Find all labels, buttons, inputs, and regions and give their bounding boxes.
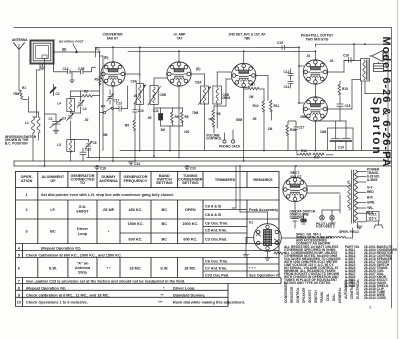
capacitor C11: [153, 108, 163, 126]
svg-text:18 MC.: 18 MC.: [184, 267, 196, 271]
svg-text:7B6: 7B6: [244, 36, 250, 40]
svg-text:(B): (B): [62, 48, 66, 52]
svg-text:C9B: C9B: [160, 93, 167, 97]
svg-text:G-Y: G-Y: [367, 185, 374, 189]
svg-text:SOCKET: SOCKET: [308, 290, 312, 303]
svg-text:50M: 50M: [236, 118, 243, 122]
wire T2 cathode down: [178, 86, 180, 156]
wire field leads: [282, 228, 353, 238]
svg-text:.1M: .1M: [267, 127, 273, 131]
svg-text:2M: 2M: [161, 128, 166, 132]
svg-text:C14: C14: [284, 85, 290, 89]
svg-text:.05 MF.: .05 MF.: [102, 208, 114, 212]
svg-text:Driver Loop.: Driver Loop.: [173, 286, 195, 290]
svg-text:1500 KC.: 1500 KC.: [182, 222, 198, 226]
capacitor C14 trap: [63, 67, 71, 74]
svg-text:R16: R16: [301, 149, 307, 153]
antenna symbol: [14, 43, 25, 50]
svg-text:R9: R9: [175, 115, 179, 119]
wire output grids: [291, 47, 315, 103]
svg-text:Strip: Strip: [78, 271, 87, 275]
svg-text:ANTENNA: ANTENNA: [12, 38, 28, 42]
svg-text:See Operation #7: See Operation #7: [249, 273, 280, 277]
connector speaker plug K1: [249, 221, 281, 252]
svg-text:Check Calibration at 600 KC.,: Check Calibration at 600 KC., 1000 KC., …: [26, 254, 122, 258]
wire T3 grid: [243, 51, 245, 63]
resistor R11: [270, 100, 280, 120]
svg-text:BC: BC: [162, 238, 168, 242]
op-amp tube T1 converter: [101, 62, 125, 86]
svg-text:C6: C6: [93, 141, 97, 145]
svg-text:DIAL: DIAL: [332, 294, 336, 301]
inductor L1 antenna coil: [25, 97, 40, 161]
wire right edge bus: [315, 44, 388, 166]
svg-text:C12: C12: [284, 70, 290, 74]
svg-text:Antenna: Antenna: [75, 266, 91, 270]
svg-text:TRIMMERS: TRIMMERS: [215, 178, 236, 182]
svg-text:CONDENSER: CONDENSER: [284, 282, 288, 303]
svg-text:A-5829: A-5829: [367, 178, 378, 182]
svg-text:100: 100: [184, 130, 190, 134]
wire plates to output transformer: [315, 61, 360, 151]
svg-text:C5 Ant.Trim.: C5 Ant.Trim.: [205, 229, 227, 233]
svg-text:S.W.: S.W.: [49, 267, 57, 271]
capacitor C4 trimmer: [77, 100, 87, 111]
svg-text:AUTOMATIC: AUTOMATIC: [344, 279, 348, 299]
svg-text:C14: C14: [63, 67, 69, 71]
svg-text:C3 Osc.Pad.: C3 Osc.Pad.: [205, 238, 227, 242]
svg-text:SPKR. FIELD: SPKR. FIELD: [339, 230, 360, 234]
wire rect to bus: [294, 166, 296, 177]
svg-text:G.D.: G.D.: [79, 205, 87, 209]
svg-text:C6 Osc.Trim.: C6 Osc.Trim.: [205, 260, 228, 264]
capacitor C24 C25 filter: [292, 214, 307, 228]
svg-text:R5: R5: [125, 124, 129, 128]
svg-text:.01: .01: [133, 94, 138, 98]
wire antenna lead-in: [18, 50, 20, 91]
transformer 2nd IF secondary: [213, 86, 230, 104]
output section: [284, 44, 389, 166]
svg-text:Standard Dummy.: Standard Dummy.: [173, 293, 205, 297]
wire T3 cathode down: [243, 88, 245, 161]
wire output misc: [297, 81, 388, 155]
speaker cone: [370, 51, 387, 62]
capacitor C3 trimmer: [62, 113, 73, 120]
transformer output T201: [361, 59, 370, 82]
switch on-off label: [290, 210, 316, 220]
scan edge line: [397, 0, 399, 339]
capacitor C14: [284, 82, 294, 90]
page top border: [14, 27, 392, 29]
wire T2 grid: [178, 51, 180, 62]
wire L5 leads: [71, 140, 89, 162]
ground output cathode: [265, 258, 270, 261]
svg-text:(D): (D): [196, 67, 200, 71]
svg-text:C23 Osc.Pad.: C23 Osc.Pad.: [205, 273, 229, 277]
wire 2nd IF leads: [191, 72, 231, 151]
svg-text:R6: R6: [185, 115, 189, 119]
svg-text:C9 A & B: C9 A & B: [205, 205, 221, 209]
svg-text:ATION: ATION: [21, 179, 33, 183]
svg-text:CONTROL: CONTROL: [206, 136, 222, 140]
wire output bias row: [288, 120, 296, 122]
parts list right column: [364, 245, 398, 300]
resistor R16: [300, 149, 311, 156]
svg-text:C1B: C1B: [78, 67, 85, 71]
middle lower section: [153, 41, 299, 151]
svg-text:* * *: * * *: [249, 266, 256, 270]
svg-text:GRN.: GRN.: [367, 201, 375, 205]
svg-text:FREQUENCY: FREQUENCY: [124, 179, 148, 183]
resistor R20 speaker bias: [274, 252, 285, 254]
svg-text:.02: .02: [329, 59, 334, 63]
ground C20 on chassis bus: [184, 165, 196, 171]
capacitor C6 trimmer: [85, 141, 97, 148]
svg-text:NO AERIAL POST: NO AERIAL POST: [59, 40, 84, 44]
label transformer leads: [367, 168, 380, 216]
svg-text:"A" on: "A" on: [76, 262, 89, 266]
svg-text:2: 2: [26, 208, 28, 212]
svg-text:S.W.: S.W.: [160, 267, 168, 271]
power supply section: [232, 166, 383, 260]
svg-text:SWITCH: SWITCH: [314, 290, 318, 303]
capacitor C10: [133, 103, 144, 118]
svg-text:C19: C19: [338, 146, 344, 150]
svg-text:L1: L1: [25, 121, 29, 125]
svg-text:10: 10: [17, 301, 21, 305]
capacitor C23 padder: [80, 148, 91, 162]
connector phono jack: [219, 130, 241, 148]
svg-text:115 V.: 115 V.: [368, 216, 377, 220]
wire speaker plug leads: [232, 166, 268, 257]
ground speaker return: [243, 255, 248, 258]
svg-text:600 KC.: 600 KC.: [183, 238, 197, 242]
svg-text:C18: C18: [100, 167, 106, 171]
svg-text:Set dial pointer even with L.H: Set dial pointer even with L.H. stop lin…: [41, 193, 174, 197]
svg-text:C8 A & B: C8 A & B: [205, 213, 221, 217]
svg-text:TO: TO: [80, 181, 85, 185]
svg-text:C2: C2: [56, 92, 60, 96]
svg-text:COIL: COIL: [326, 293, 330, 301]
wire no-aerial-post lead: [54, 44, 100, 53]
svg-text:3M: 3M: [103, 133, 108, 137]
wire mid junction: [155, 108, 183, 151]
capacitor C16: [343, 54, 354, 63]
svg-text:Sparton: Sparton: [370, 97, 382, 156]
svg-text:C17: C17: [299, 126, 305, 130]
svg-text:SETTING: SETTING: [156, 181, 173, 185]
svg-text:RATING AND TYPE AS LISTED.: RATING AND TYPE AS LISTED.: [284, 281, 331, 285]
svg-text:Peak Accurately: Peak Accurately: [249, 208, 279, 212]
svg-text:R8: R8: [217, 112, 221, 116]
svg-text:Check Operations 1 to 6 inclus: Check Operations 1 to 6 inclusive.: [26, 301, 88, 305]
tube T2 IF amp: [167, 62, 191, 86]
ground transformer shield: [357, 226, 362, 229]
svg-text:Loop: Loop: [78, 232, 88, 236]
svg-text:10M: 10M: [320, 130, 327, 134]
capacitor C17b: [294, 121, 305, 151]
wire T1 grid cap: [112, 47, 114, 62]
AC plug symbol: [374, 222, 383, 228]
node dots: [44, 43, 389, 167]
svg-text:C20: C20: [190, 167, 196, 171]
capacitor C19 C20 dual electrolytic can: [315, 121, 353, 151]
transformer 1st IF primary: [131, 80, 146, 105]
parts list text block: [284, 245, 341, 285]
label volume control: [206, 133, 222, 140]
resistor R1: [13, 86, 27, 99]
svg-text:BC: BC: [162, 208, 168, 212]
svg-text:.02: .02: [84, 118, 89, 122]
page right border: [391, 28, 393, 308]
svg-text:CONTROL: CONTROL: [290, 216, 306, 220]
wire AVC bus: [87, 157, 392, 159]
svg-text:REMARKS: REMARKS: [253, 178, 273, 182]
svg-text:B-R: B-R: [367, 195, 373, 199]
svg-text:C3: C3: [62, 117, 66, 121]
alignment table: [15, 172, 281, 307]
resistor R5: [125, 118, 136, 161]
svg-text:3: 3: [369, 306, 371, 310]
ground C18 on chassis bus: [94, 165, 106, 171]
svg-text:9: 9: [18, 293, 20, 297]
svg-text:BC: BC: [162, 222, 168, 226]
capacitor C1 tuning: [45, 114, 63, 130]
wire top bus B+: [96, 47, 300, 57]
inductor field coil: [328, 237, 346, 239]
svg-text:7A7: 7A7: [177, 36, 183, 40]
wire wave trap: [54, 52, 96, 80]
svg-text:ANTENNA: ANTENNA: [99, 179, 118, 183]
ground C13 mid: [128, 162, 140, 166]
svg-text:ELECTRICAL: ELECTRICAL: [356, 279, 360, 299]
svg-text:6A8GT: 6A8GT: [76, 210, 89, 214]
svg-text:456 KC.: 456 KC.: [129, 208, 143, 212]
svg-text:TRANS.: TRANS.: [320, 291, 324, 303]
svg-text:RED: RED: [367, 190, 374, 194]
svg-text:(E): (E): [104, 56, 108, 60]
wire rect plate leads: [295, 186, 352, 217]
resistor R13: [286, 121, 296, 151]
switch R4 band: [100, 105, 118, 114]
svg-text:BC: BC: [50, 230, 56, 234]
tube T6 rectifier: [283, 177, 307, 201]
svg-text:6A8 GT: 6A8 GT: [107, 36, 118, 40]
resistor R3 cathode: [95, 76, 102, 85]
capacitor C18 tone: [337, 104, 351, 112]
svg-text:L5: L5: [57, 143, 61, 147]
svg-text:25M: 25M: [300, 115, 307, 119]
parts list rotated column labels: [284, 278, 360, 303]
svg-text:C13: C13: [134, 162, 140, 166]
inductor L4 osc coil: [57, 99, 74, 112]
svg-text:PHONO JACK: PHONO JACK: [219, 144, 241, 148]
transformer hum bucking box: [374, 62, 384, 72]
svg-text:R3: R3: [95, 78, 99, 82]
svg-text:600 KC.: 600 KC.: [129, 238, 143, 242]
wire detector outputs: [214, 76, 268, 107]
svg-text:C15: C15: [277, 41, 283, 45]
lamp pilot lights: [316, 210, 340, 229]
resistor R17: [313, 153, 324, 160]
bus wires bottom of schematic: [14, 151, 392, 167]
svg-text:6-26 USES 2: 6-26 USES 2: [316, 225, 335, 229]
schematic top section: [12, 33, 333, 166]
svg-text:5: 5: [18, 254, 20, 258]
svg-text:SETTING: SETTING: [182, 181, 199, 185]
wire transformer taps: [357, 172, 366, 229]
wire loop leads: [37, 58, 45, 166]
label inversion switch note: [5, 135, 37, 145]
svg-text:YEL.: YEL.: [367, 206, 374, 210]
left oscillator / band switch section: [5, 86, 144, 161]
wire B- bus: [40, 160, 392, 162]
capacitor C15 coupling: [256, 41, 299, 50]
capacitor C1B trap: [78, 67, 85, 74]
value labels: [84, 54, 334, 137]
svg-text:**: **: [161, 293, 164, 297]
svg-text:70M: 70M: [192, 111, 199, 115]
transformer primary winding: [348, 181, 351, 210]
svg-text:8: 8: [18, 286, 20, 290]
label spec note: [296, 232, 333, 245]
inductor L5 SW osc coil: [57, 140, 74, 153]
ground trap: [69, 80, 74, 83]
potentiometer R8 volume control: [209, 106, 221, 133]
svg-text:.01: .01: [306, 54, 311, 58]
resistor R7 diode load: [244, 83, 264, 90]
svg-text:(Repeat Operation #2): (Repeat Operation #2): [41, 247, 81, 251]
svg-text:Check calibration at 6 MC., 11: Check calibration at 6 MC., 11 MC., and …: [26, 293, 110, 297]
svg-text:C17: C17: [114, 99, 120, 103]
wire osc section: [71, 91, 100, 140]
svg-text:C10: C10: [138, 109, 144, 113]
ground at C1: [53, 131, 58, 134]
loop antenna: [31, 41, 54, 64]
svg-text:R4: R4: [101, 105, 105, 109]
svg-text:18 MC.: 18 MC.: [129, 267, 141, 271]
tube T5 output 2: [303, 97, 327, 121]
svg-text:RESISTOR: RESISTOR: [290, 286, 294, 303]
capacitor C17 trimmer under T1: [107, 90, 120, 104]
ground loop return: [40, 64, 45, 70]
svg-text:R11: R11: [274, 104, 280, 108]
capacitor C2 bold trimmer: [50, 84, 60, 96]
svg-text:***: ***: [158, 301, 163, 305]
svg-text:C4: C4: [83, 107, 87, 111]
svg-text:C8A: C8A: [195, 81, 202, 85]
tube T3 2nd det: [232, 63, 256, 87]
wire 1st IF leads: [125, 47, 166, 156]
resistor R10: [253, 100, 265, 151]
svg-text:GENERAL: GENERAL: [338, 287, 342, 303]
svg-text:1500 KC.: 1500 KC.: [127, 222, 143, 226]
svg-text:R10: R10: [253, 104, 259, 108]
wire chassis bus: [14, 165, 392, 167]
svg-text:Driver: Driver: [77, 227, 88, 231]
svg-text:7: 7: [18, 280, 20, 284]
svg-text:C6 Osc.Trim.: C6 Osc.Trim.: [205, 222, 228, 226]
svg-text:.05: .05: [147, 116, 152, 120]
svg-text:C18: C18: [345, 104, 351, 108]
node C wire down converter: [100, 52, 104, 161]
capacitor C13a: [116, 86, 128, 111]
svg-text:C7 Ant.Trim.: C7 Ant.Trim.: [205, 266, 227, 270]
svg-text:* *: * *: [106, 267, 111, 271]
svg-text:L4: L4: [57, 102, 61, 106]
svg-text:CENTRALAB: CENTRALAB: [350, 278, 354, 299]
svg-text:6: 6: [18, 267, 20, 271]
svg-text:.05: .05: [252, 117, 257, 121]
wire B+ bus: [120, 150, 392, 152]
svg-text:(Repeat Operation #6): (Repeat Operation #6): [26, 286, 66, 290]
svg-text:1M: 1M: [249, 95, 254, 99]
resistor R15: [338, 81, 348, 104]
voltage box 115V: [367, 212, 380, 222]
wire T1 cathode down: [112, 86, 114, 161]
resistor R9: [171, 108, 179, 126]
svg-text:R15: R15: [342, 87, 348, 91]
svg-text:C11: C11: [153, 109, 159, 113]
svg-text:250M: 250M: [222, 96, 230, 100]
resistor R2: [82, 90, 92, 98]
svg-text:3: 3: [26, 230, 28, 234]
svg-text:Gen. padder C23 is provision s: Gen. padder C23 is provision set at the …: [26, 280, 185, 284]
svg-text:R2: R2: [84, 90, 88, 94]
transformer 1st IF secondary: [148, 86, 167, 106]
resistor R6: [181, 108, 189, 126]
svg-text:C16: C16: [343, 54, 349, 58]
svg-text:C23: C23: [85, 148, 91, 152]
tube T4 output 1: [303, 60, 327, 84]
svg-text:I.F.: I.F.: [50, 208, 55, 212]
svg-text:CONTROL: CONTROL: [296, 287, 300, 303]
svg-text:R7: R7: [251, 83, 255, 87]
svg-text:OPEN: OPEN: [185, 208, 196, 212]
svg-text:75M: 75M: [13, 92, 20, 96]
transformer power secondary winding: [355, 171, 358, 223]
svg-text:OF: OF: [50, 179, 56, 183]
svg-text:R1: R1: [22, 86, 26, 90]
node labels: [62, 48, 200, 71]
wire transformer secondary down: [361, 81, 363, 151]
svg-text:Rock dial while making this ad: Rock dial while making this adjustment.: [173, 301, 245, 305]
svg-text:B.C. POSITION: B.C. POSITION: [5, 141, 28, 145]
svg-text:SPEAKER: SPEAKER: [302, 287, 306, 303]
transformer 2nd IF primary: [195, 81, 211, 105]
transformer power T1 core: [352, 170, 354, 223]
svg-text:26-1044 CORD: 26-1044 CORD: [364, 296, 387, 300]
svg-text:1: 1: [26, 193, 28, 197]
svg-text:R13: R13: [290, 128, 296, 132]
svg-text:TWO 6K6 GT/G: TWO 6K6 GT/G: [306, 37, 329, 41]
svg-text:K1: K1: [249, 221, 253, 225]
svg-text:C1: C1: [49, 117, 53, 121]
parts list middle column: [345, 245, 360, 288]
capacitor C12: [284, 69, 294, 80]
svg-text:C9A: C9A: [131, 80, 138, 84]
